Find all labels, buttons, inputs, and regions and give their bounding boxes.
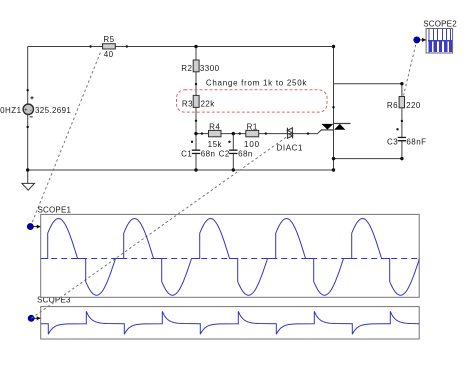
svg-text:325.2691: 325.2691 <box>35 106 71 115</box>
svg-text:-: - <box>30 107 32 113</box>
svg-text:R6: R6 <box>387 101 398 110</box>
svg-text:SCOPE1: SCOPE1 <box>38 206 72 215</box>
svg-text:15k: 15k <box>208 140 223 149</box>
svg-text:R3: R3 <box>182 99 193 108</box>
svg-text:SCOPE2: SCOPE2 <box>423 20 457 29</box>
svg-text:40: 40 <box>104 50 114 59</box>
svg-text:R2: R2 <box>181 64 192 73</box>
svg-text:50HZ1: 50HZ1 <box>0 106 22 115</box>
svg-text:22k: 22k <box>201 99 216 108</box>
svg-text:68nF: 68nF <box>406 138 426 147</box>
svg-text:C3: C3 <box>387 138 398 147</box>
svg-text:100: 100 <box>244 140 260 149</box>
svg-text:DIAC1: DIAC1 <box>277 143 304 152</box>
svg-text:Change from 1k to 250k: Change from 1k to 250k <box>206 79 308 88</box>
svg-text:R1: R1 <box>247 122 258 131</box>
svg-text:R4: R4 <box>209 122 220 131</box>
svg-text:+: + <box>24 107 27 113</box>
svg-text:220: 220 <box>406 101 421 110</box>
svg-text:R5: R5 <box>103 35 114 44</box>
svg-text:C2: C2 <box>219 150 230 159</box>
svg-text:68n: 68n <box>238 150 253 159</box>
svg-text:C1: C1 <box>181 150 192 159</box>
svg-text:3300: 3300 <box>200 64 220 73</box>
svg-text:68n: 68n <box>201 150 216 159</box>
